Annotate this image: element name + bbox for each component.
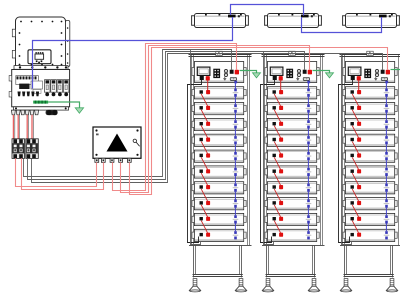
- rack control unit rack2: [265, 62, 319, 84]
- wire red bus combiner port3 to rack1: [113, 44, 237, 191]
- wire rack 2 control to module1 red: [280, 81, 282, 90]
- inverter wiring compartment: [9, 70, 70, 107]
- rack 2 lower frame: [266, 246, 316, 278]
- battery module rack2-B5: [265, 150, 319, 162]
- battery module rack1-B5: [192, 150, 246, 162]
- rack foot rack2 right: [308, 279, 319, 292]
- combiner box: [93, 127, 141, 158]
- battery module rack1-B9: [192, 213, 246, 225]
- wire battery cables inverter to breakers: [13, 115, 33, 139]
- rack 1 shelf line: [189, 245, 252, 247]
- wire rack 3 series diagonals: [352, 94, 358, 233]
- rack 1 frame right post: [248, 55, 250, 246]
- battery module rack3-B2: [343, 103, 397, 115]
- wire rack 1 comm blue chain: [234, 82, 236, 231]
- rack 3 frame right post: [399, 55, 400, 246]
- parallel comm module CM3: [343, 14, 400, 28]
- wire rack 2 comm blue chain: [307, 82, 309, 231]
- battery module rack2-B10: [265, 229, 319, 241]
- rack 1 label plate: [216, 51, 222, 55]
- battery module rack2-B3: [265, 118, 319, 130]
- wire black bus rack1 left drop: [191, 50, 201, 245]
- battery module rack3-B9: [343, 213, 397, 225]
- combiner ports: [95, 158, 131, 162]
- wire rack 3 comm blue chain: [385, 82, 387, 231]
- battery module rack3-B3: [343, 118, 397, 130]
- parallel comm module CM1: [192, 14, 249, 28]
- rack foot rack1 left: [189, 279, 200, 292]
- DC breaker Q1: [12, 139, 25, 159]
- battery module rack2-B4: [265, 134, 319, 146]
- battery module rack2-B9: [265, 213, 319, 225]
- rack 3 label plate: [367, 51, 373, 55]
- wire red bus combiner port4 to rack2: [121, 46, 310, 193]
- rack 2 shelf line: [262, 245, 325, 247]
- combiner pigtail: [133, 139, 140, 146]
- ground arrow rack2: [326, 73, 334, 78]
- wire green PE from inverter: [48, 102, 79, 108]
- battery module rack1-B4: [192, 134, 246, 146]
- wire red bus combiner port5 to rack3: [130, 48, 388, 195]
- inverter display: [28, 50, 51, 64]
- rack control unit rack3: [343, 62, 397, 84]
- wire black bus rack2: [28, 52, 305, 180]
- wire black bus rack1: [24, 50, 232, 177]
- battery module rack2-B8: [265, 198, 319, 210]
- wire green PE rack3: [391, 69, 400, 71]
- inverter PE terminal block: [33, 101, 48, 104]
- rack 3 shelf line: [340, 245, 400, 247]
- rack 2 label plate: [289, 51, 295, 55]
- battery module rack3-B10: [343, 229, 397, 241]
- battery module rack3-B4: [343, 134, 397, 146]
- rack 2 frame left post: [265, 55, 267, 246]
- battery module rack1-B6: [192, 166, 246, 178]
- wire black bus rack2 left drop: [264, 52, 274, 245]
- wire black bus rack3: [32, 54, 383, 183]
- wire green PE rack1: [240, 71, 257, 73]
- ground arrow rack1: [253, 73, 261, 78]
- battery module rack1-B2: [192, 103, 246, 115]
- battery module rack1-B10: [192, 229, 246, 241]
- rack 1 frame left post: [192, 55, 194, 246]
- rack 2 frame right post: [321, 55, 323, 246]
- battery module rack3-B8: [343, 198, 397, 210]
- parallel comm module CM2: [265, 14, 322, 28]
- battery module rack1-B1: [192, 87, 246, 99]
- wire blue comm inverter to CM1: [33, 17, 233, 89]
- battery module rack2-B6: [265, 166, 319, 178]
- wire rack 3 control to module1 red: [358, 81, 360, 90]
- rack 2 top rails: [262, 55, 325, 57]
- battery module rack1-B3: [192, 118, 246, 130]
- wire red breaker to combiner port2: [22, 158, 104, 189]
- wire rack 3 control black loop: [339, 80, 353, 243]
- inverter U1 top cover: [12, 17, 70, 70]
- battery module rack2-B1: [265, 87, 319, 99]
- ground arrow inverter: [75, 108, 83, 113]
- battery module rack3-B1: [343, 87, 397, 99]
- battery module rack2-B2: [265, 103, 319, 115]
- rack 1 lower frame: [193, 246, 243, 278]
- battery module rack3-B6: [343, 166, 397, 178]
- rack control unit rack1: [192, 62, 246, 84]
- wire black bus rack3 left drop: [342, 54, 352, 245]
- wire rack 2 control black loop: [261, 80, 275, 243]
- wire green PE rack2: [313, 71, 330, 73]
- rack 3 top rails: [340, 55, 400, 57]
- rack 1 top rails: [189, 55, 252, 57]
- wire rack 1 series diagonals: [201, 94, 207, 233]
- rack foot rack3 right: [386, 279, 397, 292]
- rack foot rack1 right: [235, 279, 246, 292]
- wire blue comm CM1 to CM2: [231, 5, 304, 16]
- DC breaker Q2: [26, 139, 39, 159]
- rack foot rack2 left: [262, 279, 273, 292]
- wire rack 1 control to module1 red: [207, 81, 209, 90]
- battery module rack3-B7: [343, 182, 397, 194]
- inverter cable glands: [11, 110, 57, 115]
- rack 3 frame left post: [343, 55, 345, 246]
- wire blue comm CM2 to CM3: [302, 17, 382, 33]
- battery module rack1-B8: [192, 198, 246, 210]
- battery module rack1-B7: [192, 182, 246, 194]
- battery module rack2-B7: [265, 182, 319, 194]
- rack foot rack3 left: [340, 279, 351, 292]
- inverter bottom rail: [14, 107, 69, 110]
- combiner warning triangle: [107, 134, 128, 152]
- rack 3 lower frame: [344, 246, 394, 278]
- battery module rack3-B5: [343, 150, 397, 162]
- wire rack 2 series diagonals: [274, 94, 280, 233]
- inverter mid rail: [14, 66, 68, 70]
- wire red breaker to combiner port1: [16, 158, 97, 186]
- wire rack 1 control black loop: [188, 80, 202, 243]
